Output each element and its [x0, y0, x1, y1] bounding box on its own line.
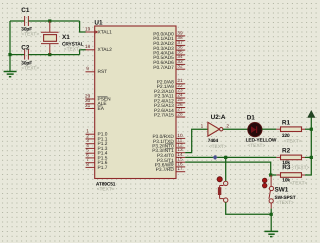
- wire to ground: [270, 214, 272, 231]
- push button (momentary switch): [217, 177, 228, 203]
- svg-text:28: 28: [177, 112, 183, 117]
- svg-text:P3.7/RD: P3.7/RD: [156, 167, 175, 173]
- svg-text:D1: D1: [247, 115, 256, 122]
- wire rail down to ground: [9, 55, 11, 71]
- svg-text:<TEXT>: <TEXT>: [21, 66, 39, 72]
- svg-text:19: 19: [85, 26, 91, 31]
- pin 1 (P1.0): [86, 129, 108, 138]
- resistor R1: [276, 127, 305, 132]
- svg-text:RST: RST: [98, 69, 108, 75]
- wire P3.5 to R3 (net with SW1): [185, 162, 276, 175]
- node B junction (crystal bottom / C2): [48, 53, 51, 56]
- junction rail-R2: [310, 156, 313, 159]
- pin 39 (P0.0/AD0): [153, 30, 185, 37]
- ground (bottom): [264, 231, 278, 236]
- op chip U1 AT89C51 body: [95, 26, 176, 179]
- wire R2 to VCC rail: [305, 156, 311, 158]
- svg-text:AT89C51: AT89C51: [96, 181, 116, 187]
- pin 9 (RST): [86, 66, 108, 75]
- wire SW1 bottom: [270, 209, 272, 215]
- svg-text:CRYSTAL: CRYSTAL: [62, 41, 84, 47]
- pin 27 (P2.6/A14): [154, 107, 185, 114]
- wire button bottom to ground net: [226, 202, 272, 214]
- wire D1 to R1: [262, 128, 276, 130]
- svg-text:<TEXT>: <TEXT>: [64, 47, 82, 53]
- pin 21 (P2.0/A8): [157, 78, 185, 85]
- wire node to XTAL1 pin: [80, 21, 86, 32]
- op-amp U2:A 7404 inverter: [208, 122, 223, 136]
- svg-text:2: 2: [226, 124, 229, 129]
- svg-text:XTAL1: XTAL1: [98, 29, 113, 35]
- svg-text:17: 17: [177, 166, 183, 171]
- pin 26 (P2.5/A13): [154, 102, 185, 109]
- wire R1 to VCC rail: [305, 128, 311, 130]
- wire VCC rail: [305, 117, 311, 175]
- node A junction (crystal top / C1): [48, 19, 51, 22]
- pin 23 (P2.2/A10): [154, 88, 185, 95]
- svg-text:P0.7/AD7: P0.7/AD7: [153, 65, 174, 71]
- svg-text:<TEXT>: <TEXT>: [97, 186, 115, 192]
- pin 12 (P3.2/INT0): [152, 142, 185, 149]
- pin 38 (P0.1/AD1): [153, 35, 185, 42]
- svg-text:<TEXT>: <TEXT>: [290, 181, 308, 187]
- pin 35 (P0.4/AD4): [153, 49, 185, 56]
- pin 19 (XTAL1): [85, 26, 112, 35]
- svg-text:<TEXT>: <TEXT>: [276, 200, 294, 206]
- wire C2 right plate to crystal bottom node: [28, 54, 79, 56]
- node marker (blue diamond): [213, 155, 218, 160]
- junction rail-R1: [310, 128, 313, 131]
- pin 4 (P1.3): [86, 143, 108, 152]
- pin 5 (P1.4): [86, 148, 108, 157]
- wire C2 left: [10, 54, 25, 56]
- pin 32 (P0.7/AD7): [153, 64, 185, 71]
- svg-text:P2.7/A15: P2.7/A15: [154, 113, 174, 119]
- svg-text:320: 320: [282, 133, 290, 139]
- svg-text:<TEXT>: <TEXT>: [292, 165, 310, 171]
- pin 30 (ALE): [85, 98, 107, 107]
- svg-text:U1: U1: [94, 19, 103, 26]
- svg-text:C2: C2: [21, 44, 30, 51]
- ground (left): [4, 72, 17, 77]
- pin 29 (PSEN): [85, 93, 111, 102]
- left rail wire C1 to C2: [9, 21, 11, 55]
- pin 7 (P1.6): [86, 157, 108, 166]
- pin 13 (P3.3/INT1): [152, 147, 185, 154]
- svg-text:C1: C1: [21, 7, 30, 14]
- capacitor C2: [25, 50, 29, 60]
- pin 24 (P2.3/A11): [154, 93, 185, 100]
- power VCC arrow: [308, 111, 315, 117]
- junction SW1 net: [269, 173, 272, 176]
- pin 25 (P2.4/A12): [154, 97, 185, 104]
- pin 36 (P0.3/AD3): [153, 45, 185, 52]
- LED D1: [248, 123, 262, 137]
- pin 2 (P1.1): [86, 133, 108, 142]
- svg-text:SW1: SW1: [275, 186, 289, 193]
- svg-text:32: 32: [177, 64, 183, 69]
- pin 28 (P2.7/A15): [154, 112, 185, 119]
- pin 31 (EA): [85, 103, 105, 112]
- svg-text:R1: R1: [282, 120, 291, 127]
- svg-text:XTAL2: XTAL2: [98, 47, 113, 53]
- pin 6 (P1.5): [86, 152, 108, 161]
- svg-text:8: 8: [86, 162, 89, 167]
- pin 18 (XTAL2): [85, 44, 112, 53]
- capacitor C1: [25, 16, 29, 26]
- pin 16 (P3.6/WR): [155, 161, 186, 168]
- pin 33 (P0.6/AD6): [153, 59, 185, 66]
- svg-text:EA: EA: [98, 106, 105, 112]
- svg-text:R2: R2: [282, 148, 291, 155]
- junction ground net: [270, 213, 273, 216]
- wire P3.4 to R2 (net with button): [185, 156, 276, 158]
- svg-text:SW-SPST: SW-SPST: [275, 195, 296, 201]
- wire C1 right plate to crystal node: [28, 20, 79, 22]
- pin 3 (P1.2): [86, 138, 108, 147]
- svg-text:7404: 7404: [208, 138, 219, 144]
- svg-text:1: 1: [201, 124, 204, 129]
- wire C1-left to rail corner: [10, 20, 25, 22]
- svg-text:<TEXT>: <TEXT>: [247, 143, 265, 149]
- junction left rail at C2: [8, 53, 11, 56]
- pin 10 (P3.0/RXD): [152, 133, 185, 140]
- pin 11 (P3.1/TXD): [153, 138, 185, 145]
- crystal X1: [41, 21, 59, 55]
- resistor R3: [276, 173, 305, 178]
- pin 17 (P3.7/RD): [156, 166, 186, 173]
- wire P3.3 to U2 input: [185, 129, 208, 152]
- wire button top: [225, 157, 227, 181]
- pin 34 (P0.5/AD5): [153, 54, 185, 61]
- svg-text:<TEXT>: <TEXT>: [284, 138, 302, 144]
- switch SW1 SW-SPST: [262, 175, 273, 209]
- XTAL1 pin arrow: [95, 30, 98, 33]
- svg-text:31: 31: [85, 103, 91, 108]
- resistor R2: [276, 155, 305, 160]
- pin 22 (P2.1/A9): [157, 83, 185, 90]
- wire node to XTAL2 pin: [80, 50, 86, 55]
- pin 37 (P0.2/AD2): [153, 40, 185, 47]
- svg-text:U2:A: U2:A: [211, 114, 226, 121]
- svg-text:LED-YELLOW: LED-YELLOW: [246, 138, 277, 144]
- junction button net: [224, 156, 227, 159]
- svg-text:X1: X1: [62, 34, 70, 41]
- pin 15 (P3.5/T1): [157, 157, 185, 164]
- svg-text:18: 18: [85, 44, 91, 49]
- pin 14 (P3.4/T0): [157, 152, 185, 159]
- wire U2 output to D1: [223, 128, 248, 130]
- svg-text:P1.7: P1.7: [98, 165, 108, 171]
- pin 8 (P1.7): [86, 162, 108, 171]
- svg-text:9: 9: [86, 66, 89, 71]
- svg-text:<TEXT>: <TEXT>: [209, 144, 227, 150]
- svg-text:R3: R3: [282, 164, 291, 171]
- svg-text:<TEXT>: <TEXT>: [21, 32, 39, 38]
